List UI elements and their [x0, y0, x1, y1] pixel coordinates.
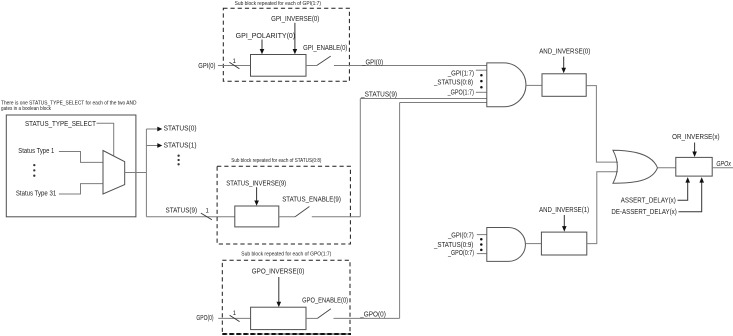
arrow AND_INVERSE(0) to box — [561, 57, 566, 74]
svg-text:STATUS_TYPE_SELECT: STATUS_TYPE_SELECT — [25, 121, 97, 128]
svg-text:STATUS(0): STATUS(0) — [164, 126, 197, 133]
svg-text:_GPO(0): _GPO(0) — [359, 311, 386, 318]
wire stub _GPI(0:7) — [477, 234, 487, 236]
wire STATUS_TYPE_SELECT to mux — [97, 123, 114, 156]
svg-text:Status Type 1: Status Type 1 — [18, 148, 54, 155]
note caption: There is one STATUS_TYPE_SELECT — [1, 100, 137, 112]
wire+arrow ASSERT_DELAY into box bottom — [678, 177, 691, 200]
wire STATUS(1) with arrow — [146, 143, 162, 148]
GPO enable switch — [306, 309, 331, 319]
svg-text:_STATUS(9): _STATUS(9) — [360, 92, 397, 99]
wire GPI(0) input — [218, 65, 251, 67]
svg-text:AND_INVERSE(0): AND_INVERSE(0) — [539, 48, 590, 55]
dots between STATUS outputs — [177, 155, 179, 157]
AND inverse box upper — [542, 74, 586, 97]
wire Status Type 1 to mux — [59, 152, 103, 163]
svg-text:STATUS(9): STATUS(9) — [166, 208, 198, 215]
AND gate upper — [487, 63, 526, 107]
svg-text:GPO_ENABLE(0): GPO_ENABLE(0) — [302, 297, 348, 304]
arrow OR_INVERSE to box — [692, 143, 697, 158]
wire status fanout bus — [145, 129, 147, 217]
STATUS sub-block dashed box — [217, 166, 350, 244]
svg-text:AND_INVERSE(1): AND_INVERSE(1) — [539, 207, 589, 214]
wire GPO(0) input — [218, 317, 250, 319]
svg-text:GPI_ENABLE(0): GPI_ENABLE(0) — [303, 45, 347, 52]
wire mux output — [125, 172, 147, 174]
bus width slash STATUS(9) — [201, 213, 212, 220]
wire _STATUS(9) vertical riser — [359, 99, 361, 217]
GPO sub-block dashed box — [222, 260, 350, 334]
GPI enable switch — [306, 56, 331, 65]
svg-text:STATUS_INVERSE(9): STATUS_INVERSE(9) — [226, 181, 286, 188]
wire STATUS(9) into status sub-block — [146, 216, 234, 218]
boolean block outer box — [6, 115, 136, 217]
svg-text:Status Type 31: Status Type 31 — [16, 190, 56, 197]
arrow GPI_INVERSE to polarity box — [293, 23, 298, 55]
OR gate — [613, 150, 658, 183]
svg-text:gates in a boolean block: gates in a boolean block — [1, 106, 51, 112]
arrow GPI_POLARITY to polarity box — [260, 40, 265, 55]
svg-text:Sub block repeated for each of: Sub block repeated for each of GPI(1:7) — [235, 1, 322, 7]
wire _GPO(0) vertical riser — [399, 103, 401, 319]
STATUS enable switch — [279, 207, 310, 217]
svg-text:GPI_INVERSE(0): GPI_INVERSE(0) — [271, 16, 319, 23]
wire _GPO(0) to AND gate — [400, 102, 487, 104]
wire upper AND inverse output to OR — [586, 86, 618, 163]
svg-text:_GPO(1:7): _GPO(1:7) — [447, 90, 474, 97]
bus width slash GPO(0) — [230, 315, 240, 321]
svg-text:Sub block repeated for each of: Sub block repeated for each of GPO(1:7) — [241, 252, 331, 258]
svg-text:_STATUS(0:8): _STATUS(0:8) — [433, 80, 473, 87]
svg-text:GPI_POLARITY(0): GPI_POLARITY(0) — [236, 33, 295, 40]
svg-text:GPO(0): GPO(0) — [196, 315, 213, 322]
wire _GPO(0) out of sub-block — [334, 317, 400, 319]
wire lower AND inverse output to OR — [587, 172, 618, 244]
GPO dashed box heavy bottom edge — [222, 333, 351, 335]
wire OR output — [658, 167, 676, 169]
svg-text:GPO_INVERSE(0): GPO_INVERSE(0) — [252, 269, 304, 276]
arrow STATUS_INVERSE to box — [254, 187, 259, 206]
wire stub _GPO(1:7) — [476, 91, 487, 93]
svg-text:OR_INVERSE(x): OR_INVERSE(x) — [672, 134, 720, 141]
arrow GPO_INVERSE to box — [277, 277, 282, 307]
AND inverse box lower — [541, 232, 586, 255]
dots between status type inputs — [33, 164, 35, 166]
GPI sub-block dashed box — [223, 8, 349, 81]
svg-text:Sub block repeated for each of: Sub block repeated for each of STATUS(0:… — [231, 158, 321, 164]
STATUS inverse box — [235, 206, 279, 227]
wire _STATUS(9) to AND gate — [360, 98, 487, 100]
wire upper AND output — [526, 84, 542, 86]
svg-text:_GPI(1:7): _GPI(1:7) — [447, 70, 474, 77]
svg-text:GPI(0): GPI(0) — [198, 63, 215, 70]
dots lower AND inputs — [480, 238, 483, 241]
wire GPOx output — [712, 167, 733, 169]
AND gate lower — [487, 228, 526, 262]
svg-text:_GPI(0): _GPI(0) — [361, 59, 383, 66]
svg-text:DE-ASSERT_DELAY(x): DE-ASSERT_DELAY(x) — [611, 209, 676, 216]
bus width slash GPI(0) — [229, 62, 239, 68]
wire _GPI(0) to AND gate — [334, 65, 487, 67]
wire lower AND output — [526, 243, 542, 245]
wire+arrow DE-ASSERT_DELAY into box bottom — [679, 177, 705, 212]
mux (status type selector) — [103, 151, 125, 195]
OR inverse / delay box — [676, 157, 712, 176]
svg-text:STATUS_ENABLE(9): STATUS_ENABLE(9) — [282, 197, 341, 204]
wire stub _GPI(1:7) — [476, 69, 487, 71]
arrow AND_INVERSE(1) to box — [562, 215, 567, 232]
svg-text:_STATUS(0:9): _STATUS(0:9) — [433, 242, 473, 249]
svg-text:GPOx: GPOx — [716, 161, 731, 168]
GPI polarity box — [251, 55, 307, 77]
wire _STATUS(9) out of sub-block — [312, 216, 361, 218]
wire Status Type 31 to mux — [59, 184, 103, 194]
svg-text:_GPO(0:7): _GPO(0:7) — [447, 250, 474, 257]
svg-text:_GPI(0:7): _GPI(0:7) — [447, 232, 474, 239]
svg-text:STATUS(1): STATUS(1) — [164, 143, 197, 150]
wire stub _GPO(0:7) — [477, 253, 487, 255]
GPO inverse box — [251, 307, 306, 329]
svg-text:ASSERT_DELAY(x): ASSERT_DELAY(x) — [621, 197, 676, 204]
dots upper AND inputs — [480, 74, 483, 77]
wire STATUS(0) with arrow — [146, 127, 162, 132]
